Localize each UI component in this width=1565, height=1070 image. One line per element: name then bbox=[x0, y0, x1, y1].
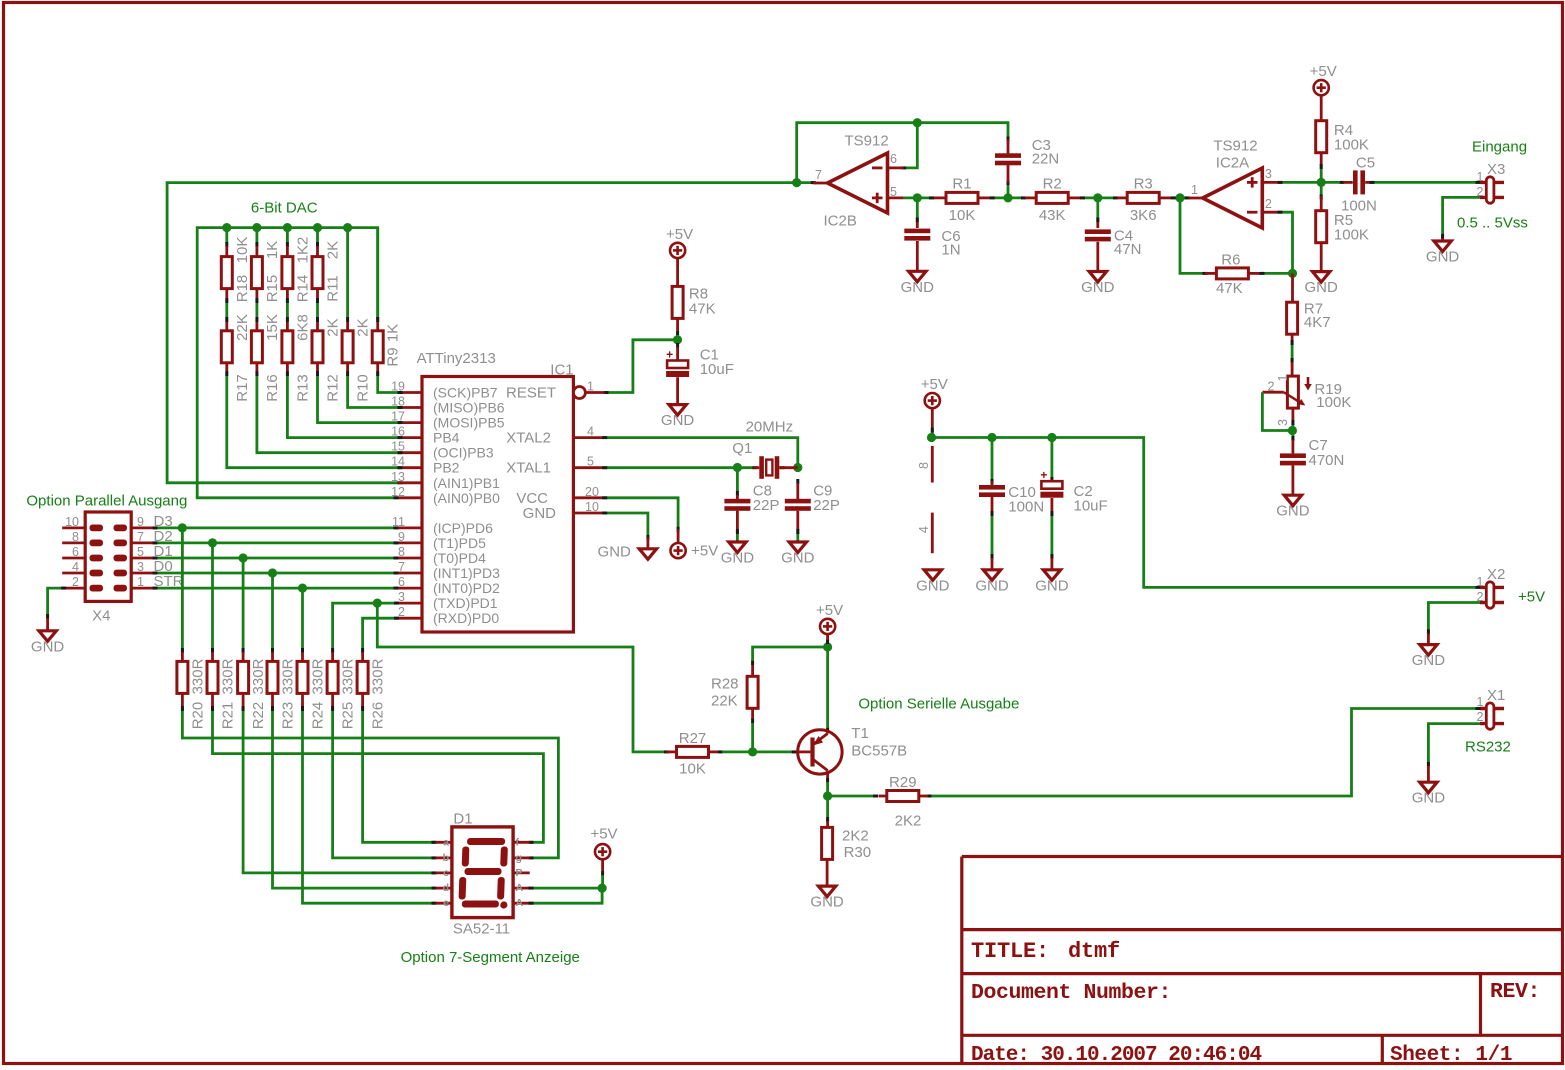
resistor R9 bbox=[372, 322, 402, 371]
svg-text:GND: GND bbox=[781, 550, 815, 567]
svg-text:10: 10 bbox=[65, 515, 79, 529]
svg-text:22K: 22K bbox=[711, 693, 738, 710]
IC IC1 ATTiny2313 bbox=[391, 350, 604, 632]
wire net R7 to R19 bbox=[1291, 340, 1294, 363]
svg-text:+5V: +5V bbox=[590, 826, 617, 843]
svg-text:+5V: +5V bbox=[921, 376, 948, 393]
svg-text:R16: R16 bbox=[264, 374, 281, 402]
svg-text:6: 6 bbox=[398, 575, 405, 589]
svg-text:GND: GND bbox=[1412, 790, 1446, 807]
svg-text:Option Parallel Ausgang: Option Parallel Ausgang bbox=[26, 493, 187, 510]
svg-text:100N: 100N bbox=[1008, 499, 1044, 516]
resistor R7 bbox=[1287, 273, 1331, 341]
svg-text:330R: 330R bbox=[189, 658, 206, 694]
svg-text:3K6: 3K6 bbox=[1130, 207, 1157, 224]
net label 0.5 .. 5Vss bbox=[1457, 215, 1528, 232]
wire net R10 to IC1 bbox=[346, 371, 402, 409]
connector X3 bbox=[1477, 161, 1506, 203]
transistor T1 (BC557B) bbox=[796, 725, 907, 779]
svg-text:1N: 1N bbox=[941, 242, 960, 259]
svg-text:(T1)PD5: (T1)PD5 bbox=[433, 535, 486, 551]
wire net C8 to ground bbox=[736, 529, 739, 540]
svg-text:R30: R30 bbox=[844, 844, 872, 861]
svg-text:1: 1 bbox=[137, 575, 144, 589]
svg-text:100N: 100N bbox=[1341, 198, 1377, 215]
svg-text:330R: 330R bbox=[310, 658, 327, 694]
svg-text:2K2: 2K2 bbox=[842, 827, 869, 844]
svg-text:1: 1 bbox=[1477, 170, 1484, 184]
svg-text:f: f bbox=[516, 836, 520, 848]
wire net IC2B output/feedback to PB1, rail to C3 and pin6 bbox=[167, 118, 1009, 484]
svg-text:47K: 47K bbox=[689, 300, 716, 317]
svg-text:22N: 22N bbox=[1032, 151, 1060, 168]
date text bbox=[971, 1044, 1261, 1067]
svg-text:(SCK)PB7: (SCK)PB7 bbox=[433, 385, 498, 401]
svg-text:100K: 100K bbox=[1334, 137, 1369, 154]
svg-text:(MOSI)PB5: (MOSI)PB5 bbox=[433, 415, 505, 431]
wire net PD row to R21 bbox=[211, 543, 214, 653]
svg-text:8: 8 bbox=[917, 462, 931, 469]
svg-text:X1: X1 bbox=[1487, 687, 1505, 704]
svg-text:6K8: 6K8 bbox=[294, 314, 311, 341]
svg-text:330R: 330R bbox=[220, 658, 237, 694]
document number text bbox=[971, 981, 1171, 1005]
wire net C9 to ground bbox=[796, 529, 799, 540]
svg-text:IC2B: IC2B bbox=[824, 213, 857, 230]
connector X2 bbox=[1477, 566, 1506, 608]
svg-text:R21: R21 bbox=[220, 702, 237, 730]
svg-text:D1: D1 bbox=[453, 811, 472, 828]
svg-text:2K2: 2K2 bbox=[895, 813, 922, 830]
ground (X1) bbox=[1412, 766, 1446, 807]
wire net R15 to R16 bbox=[255, 298, 258, 322]
wire net R14 to R13 bbox=[286, 298, 289, 322]
svg-text:9: 9 bbox=[137, 515, 144, 529]
resistor R26 bbox=[357, 652, 387, 729]
wire net R23 to segment d bbox=[271, 706, 437, 890]
wire net PD row to R23 bbox=[271, 573, 274, 653]
svg-text:R12: R12 bbox=[325, 374, 342, 402]
ground (R30) bbox=[810, 886, 844, 911]
svg-text:(AIN0)PB0: (AIN0)PB0 bbox=[433, 490, 500, 506]
svg-text:R11: R11 bbox=[325, 275, 342, 301]
net label Option 7-Segment Anzeige bbox=[401, 949, 580, 966]
svg-text:1: 1 bbox=[1191, 183, 1198, 197]
svg-text:1K2: 1K2 bbox=[294, 237, 311, 264]
wire net C10 to ground bbox=[991, 511, 994, 559]
+5V supply (IC1) bbox=[671, 529, 719, 559]
resistor R18 bbox=[221, 237, 251, 303]
svg-text:3: 3 bbox=[1265, 167, 1272, 181]
svg-text:IC2A: IC2A bbox=[1216, 155, 1249, 172]
capacitor C6 bbox=[904, 222, 960, 271]
resistor R11 bbox=[312, 241, 342, 302]
svg-text:R18: R18 bbox=[234, 275, 251, 303]
svg-text:(INT1)PD3: (INT1)PD3 bbox=[433, 565, 500, 581]
svg-text:R17: R17 bbox=[234, 374, 251, 402]
ground (X2) bbox=[1412, 633, 1446, 669]
+5V supply (IC2 rail) bbox=[921, 376, 948, 429]
wire net R11 to R12 bbox=[316, 298, 319, 322]
svg-text:R24: R24 bbox=[310, 702, 327, 730]
svg-text:4: 4 bbox=[72, 560, 79, 574]
svg-text:GND: GND bbox=[1081, 279, 1115, 296]
resistor R24 bbox=[297, 652, 327, 729]
svg-text:GND: GND bbox=[721, 550, 755, 567]
svg-text:X2: X2 bbox=[1487, 566, 1505, 583]
svg-text:XTAL1: XTAL1 bbox=[506, 460, 551, 477]
svg-text:8: 8 bbox=[72, 530, 79, 544]
svg-text:+5V: +5V bbox=[1310, 63, 1337, 80]
svg-text:RESET: RESET bbox=[506, 385, 556, 402]
svg-text:P: P bbox=[516, 867, 523, 879]
IC power pins 8/4 (IC2) bbox=[917, 446, 932, 553]
svg-text:+5V: +5V bbox=[816, 602, 843, 619]
resistor R2 bbox=[1025, 176, 1080, 224]
svg-text:22P: 22P bbox=[753, 497, 780, 514]
wire net R26 to segment a bbox=[361, 706, 436, 844]
resistor R13 bbox=[282, 314, 312, 402]
wire net R27/R28/T1 base node bbox=[722, 718, 797, 757]
svg-text:47N: 47N bbox=[1114, 241, 1142, 258]
wire net X4 pin2 to ground bbox=[46, 587, 66, 619]
svg-text:2K: 2K bbox=[355, 318, 372, 336]
svg-text:GND: GND bbox=[901, 279, 935, 296]
svg-text:R23: R23 bbox=[280, 702, 297, 730]
svg-text:(RXD)PD0: (RXD)PD0 bbox=[433, 610, 499, 626]
wire net T1 collector / R29 / R30 node bbox=[823, 778, 878, 822]
resistor R27 bbox=[667, 730, 724, 777]
svg-text:PB2: PB2 bbox=[433, 460, 460, 476]
capacitor C8 bbox=[724, 468, 779, 531]
ground (C6) bbox=[901, 271, 935, 296]
svg-text:8: 8 bbox=[398, 545, 405, 559]
net label Option Serielle Ausgabe bbox=[858, 696, 1019, 713]
ground (R5) bbox=[1305, 272, 1339, 297]
svg-text:R2: R2 bbox=[1043, 176, 1062, 193]
resistor R17 bbox=[221, 314, 251, 402]
svg-text:GND: GND bbox=[598, 543, 632, 560]
wire net R20 to segment g bbox=[181, 706, 559, 859]
wire net R22 to segment c bbox=[242, 706, 437, 874]
svg-text:1: 1 bbox=[587, 380, 594, 394]
svg-text:TS912: TS912 bbox=[1213, 138, 1257, 155]
+5V supply (T1) bbox=[816, 602, 843, 640]
wire net XTAL1 to crystal left node bbox=[602, 463, 802, 472]
resistor R28 bbox=[711, 660, 758, 719]
ground (C2) bbox=[1035, 558, 1069, 594]
wire net X1 pin2 to ground bbox=[1427, 724, 1480, 767]
connector X1 bbox=[1477, 687, 1506, 729]
wire net C5 to X3 pin1 bbox=[1370, 181, 1481, 184]
svg-text:IC1: IC1 bbox=[550, 362, 573, 379]
wire net input node (R4/R5/C5) bbox=[1320, 164, 1344, 200]
svg-text:R25: R25 bbox=[340, 702, 357, 730]
resistor R15 bbox=[251, 241, 281, 302]
svg-text:10K: 10K bbox=[679, 760, 706, 777]
svg-text:+5V: +5V bbox=[666, 226, 693, 243]
svg-text:XTAL2: XTAL2 bbox=[506, 430, 551, 447]
wire net pin5 node to R1 and C6 bbox=[904, 193, 934, 222]
svg-text:R28: R28 bbox=[711, 676, 739, 693]
svg-text:(OCI)PB3: (OCI)PB3 bbox=[433, 445, 494, 461]
capacitor C2 (polarized) bbox=[1040, 468, 1107, 514]
net label 6-Bit DAC bbox=[251, 200, 318, 217]
svg-text:6: 6 bbox=[72, 545, 79, 559]
wire net PD row to R20 bbox=[181, 528, 184, 653]
svg-text:(TXD)PD1: (TXD)PD1 bbox=[433, 595, 498, 611]
svg-text:C5: C5 bbox=[1356, 154, 1375, 171]
net label Option Parallel Ausgang bbox=[26, 493, 187, 510]
svg-text:GND: GND bbox=[1276, 503, 1310, 520]
wire net PD row to R24 bbox=[301, 588, 304, 653]
+5V supply (R4) bbox=[1310, 63, 1337, 121]
wire net R2-R3-C4 node bbox=[1080, 193, 1118, 222]
svg-text:5: 5 bbox=[587, 455, 594, 469]
svg-text:Option 7-Segment Anzeige: Option 7-Segment Anzeige bbox=[401, 949, 580, 966]
svg-text:20MHz: 20MHz bbox=[746, 419, 794, 436]
resistor R12 bbox=[312, 318, 342, 401]
svg-text:GND: GND bbox=[1412, 652, 1446, 669]
svg-text:R29: R29 bbox=[889, 774, 917, 791]
resistor R3 bbox=[1117, 176, 1171, 224]
svg-text:Date: 30.10.2007 20:46:04: Date: 30.10.2007 20:46:04 bbox=[971, 1044, 1261, 1067]
svg-text:7: 7 bbox=[137, 530, 144, 544]
svg-text:(AIN1)PB1: (AIN1)PB1 bbox=[433, 475, 500, 491]
ground (C1) bbox=[661, 405, 695, 430]
svg-text:R22: R22 bbox=[250, 702, 267, 730]
capacitor C9 bbox=[785, 479, 840, 530]
svg-text:g: g bbox=[516, 852, 522, 864]
svg-text:1K: 1K bbox=[385, 324, 402, 342]
svg-text:GND: GND bbox=[810, 894, 844, 911]
svg-text:R1: R1 bbox=[952, 176, 971, 193]
sheet text bbox=[1390, 1044, 1512, 1067]
svg-text:T1: T1 bbox=[851, 725, 869, 742]
ground (IC2 pin4) bbox=[916, 570, 950, 595]
svg-text:A: A bbox=[516, 882, 524, 894]
svg-text:STR: STR bbox=[154, 573, 184, 590]
wire net XTAL2 to crystal right node bbox=[602, 419, 798, 468]
svg-text:GND: GND bbox=[523, 505, 557, 522]
capacitor C1 (polarized) bbox=[666, 347, 734, 405]
svg-text:Sheet: 1/1: Sheet: 1/1 bbox=[1390, 1044, 1512, 1067]
svg-text:1K: 1K bbox=[264, 241, 281, 259]
wire net rail to R15 bbox=[255, 228, 258, 247]
svg-text:2: 2 bbox=[1265, 197, 1272, 211]
svg-text:R14: R14 bbox=[294, 275, 311, 303]
svg-text:9: 9 bbox=[398, 530, 405, 544]
svg-text:6-Bit DAC: 6-Bit DAC bbox=[251, 200, 318, 217]
svg-text:13: 13 bbox=[391, 470, 405, 484]
svg-text:TITLE:: TITLE: bbox=[971, 939, 1049, 964]
svg-text:RS232: RS232 bbox=[1465, 739, 1511, 756]
svg-text:330R: 330R bbox=[370, 658, 387, 694]
svg-text:3: 3 bbox=[137, 560, 144, 574]
svg-text:X3: X3 bbox=[1487, 161, 1505, 178]
wire net +5V rail (T1) bbox=[753, 639, 833, 733]
svg-text:GND: GND bbox=[31, 638, 65, 655]
wire net R16 to IC1 bbox=[255, 371, 402, 454]
svg-text:6: 6 bbox=[890, 152, 897, 166]
resistor R10 bbox=[342, 318, 372, 401]
svg-text:10: 10 bbox=[585, 500, 599, 514]
wire net VCC pin20 to +5V bbox=[602, 496, 679, 532]
svg-text:43K: 43K bbox=[1039, 207, 1066, 224]
svg-text:R20: R20 bbox=[189, 702, 206, 730]
wire net X4 rows to IC1 PD pins (D3,D2,D1,D0,STR) bbox=[153, 513, 399, 593]
capacitor C3 bbox=[995, 137, 1059, 182]
svg-text:3: 3 bbox=[1276, 419, 1290, 426]
svg-text:TS912: TS912 bbox=[845, 133, 889, 150]
wire net R21 to segment f bbox=[211, 706, 543, 844]
wire net R18 to R17 bbox=[225, 298, 228, 322]
svg-text:3: 3 bbox=[398, 590, 405, 604]
wire net R25 to segment b bbox=[331, 706, 436, 859]
svg-text:10K: 10K bbox=[234, 237, 251, 264]
ground (C10) bbox=[975, 558, 1009, 594]
capacitor C10 bbox=[979, 482, 1044, 516]
svg-text:PB4: PB4 bbox=[433, 430, 460, 446]
wire net IC2A pin2 to R6 right node bbox=[1264, 211, 1297, 278]
ground (X4) bbox=[31, 618, 65, 655]
svg-text:22K: 22K bbox=[234, 314, 251, 341]
svg-text:SA52-11: SA52-11 bbox=[453, 920, 510, 937]
svg-text:GND: GND bbox=[975, 577, 1009, 594]
svg-text:330R: 330R bbox=[250, 658, 267, 694]
svg-text:15K: 15K bbox=[264, 314, 281, 341]
svg-text:GND: GND bbox=[1426, 249, 1460, 266]
svg-text:4K7: 4K7 bbox=[1304, 314, 1331, 331]
display D1 (SA52-11 7-segment) bbox=[436, 811, 530, 938]
resistor R23 bbox=[267, 652, 297, 729]
op-amp IC2B (TS912) bbox=[813, 133, 903, 230]
svg-text:R15: R15 bbox=[264, 275, 281, 303]
wire net D1 anode to +5V bbox=[529, 871, 607, 905]
wire net rail to R18 bbox=[225, 228, 228, 247]
wire net IC2A pin3 to R4/R5/C5 node bbox=[1278, 178, 1326, 187]
ground (C8) bbox=[721, 540, 755, 567]
op-amp IC2A (TS912) bbox=[1188, 138, 1278, 229]
capacitor C7 bbox=[1280, 437, 1344, 495]
wire net X1 pin1 to R29 bbox=[927, 707, 1481, 798]
svg-text:(T0)PD4: (T0)PD4 bbox=[433, 550, 486, 566]
wire net R3 to IC2A output node, feedback to R6 bbox=[1171, 193, 1208, 275]
wire net rail to R14 bbox=[286, 228, 289, 247]
wire net X3 pin2 to ground bbox=[1441, 197, 1480, 239]
svg-text:1: 1 bbox=[1477, 695, 1484, 709]
svg-text:e: e bbox=[443, 897, 449, 909]
wire net R24 to segment e bbox=[301, 706, 437, 905]
svg-text:Q1: Q1 bbox=[732, 440, 752, 457]
svg-text:100K: 100K bbox=[1316, 394, 1351, 411]
wire net DAC summing rail bbox=[197, 223, 398, 499]
resistor R14 bbox=[282, 237, 312, 303]
svg-text:470N: 470N bbox=[1309, 452, 1345, 469]
svg-text:GND: GND bbox=[661, 412, 695, 429]
svg-text:GND: GND bbox=[916, 577, 950, 594]
wire net rail to R11 bbox=[316, 228, 319, 247]
svg-text:A: A bbox=[516, 897, 524, 909]
resistor R20 bbox=[177, 652, 207, 729]
svg-text:1: 1 bbox=[1276, 374, 1290, 381]
resistor R5 bbox=[1316, 196, 1369, 272]
ground (C9) bbox=[781, 540, 815, 567]
svg-text:10K: 10K bbox=[949, 207, 976, 224]
svg-text:330R: 330R bbox=[280, 658, 297, 694]
svg-text:b: b bbox=[443, 852, 449, 864]
net label Eingang bbox=[1472, 139, 1527, 156]
svg-text:R9: R9 bbox=[385, 347, 402, 366]
svg-text:(INT0)PD2: (INT0)PD2 bbox=[433, 580, 500, 596]
wire net rail to R9 bbox=[376, 228, 379, 322]
resistor R22 bbox=[238, 652, 268, 729]
svg-text:2: 2 bbox=[398, 605, 405, 619]
svg-text:5: 5 bbox=[137, 545, 144, 559]
svg-text:+5V: +5V bbox=[1518, 589, 1545, 606]
wire net R13 to IC1 bbox=[286, 371, 403, 439]
svg-text:R6: R6 bbox=[1221, 252, 1240, 269]
resistor R4 bbox=[1316, 121, 1369, 166]
svg-text:2: 2 bbox=[1477, 710, 1484, 724]
svg-text:c: c bbox=[443, 867, 449, 879]
resistor R25 bbox=[327, 652, 357, 729]
svg-text:X4: X4 bbox=[92, 608, 110, 625]
wire net +5V rail (pin8, C10, C2, X2) bbox=[927, 428, 1481, 589]
wire net R12 to IC1 bbox=[316, 371, 403, 424]
svg-text:+5V: +5V bbox=[691, 543, 718, 560]
wire net R1-R2-C3 node bbox=[990, 180, 1026, 202]
resistor R21 bbox=[207, 652, 237, 729]
wire net PD row to R25 bbox=[331, 599, 399, 654]
svg-text:0.5 .. 5Vss: 0.5 .. 5Vss bbox=[1457, 215, 1528, 232]
svg-text:4: 4 bbox=[917, 526, 931, 533]
svg-text:22P: 22P bbox=[813, 497, 840, 514]
svg-text:dtmf: dtmf bbox=[1068, 939, 1120, 964]
svg-text:R26: R26 bbox=[370, 702, 387, 730]
wire net RESET (R8/C1/pin1) bbox=[604, 331, 683, 394]
resistor R29 bbox=[879, 774, 929, 830]
wire net R9 to IC1 bbox=[376, 371, 402, 394]
wire net GND pin10 bbox=[602, 512, 649, 541]
resistor R1 bbox=[934, 176, 990, 224]
svg-text:(ICP)PD6: (ICP)PD6 bbox=[433, 520, 493, 536]
resistor R16 bbox=[251, 314, 281, 402]
svg-text:10uF: 10uF bbox=[700, 361, 734, 378]
svg-text:REV:: REV: bbox=[1490, 980, 1540, 1004]
svg-text:47K: 47K bbox=[1216, 280, 1243, 297]
ground (C4) bbox=[1081, 272, 1115, 297]
svg-text:10uF: 10uF bbox=[1074, 498, 1108, 515]
ground (X3) bbox=[1426, 238, 1460, 266]
wire net R19 pins 2+3 junction bbox=[1262, 392, 1297, 441]
net label RS232 bbox=[1465, 739, 1511, 756]
svg-text:BC557B: BC557B bbox=[851, 742, 907, 759]
title text bbox=[971, 939, 1120, 964]
svg-text:R13: R13 bbox=[294, 374, 311, 402]
title block frame bbox=[962, 857, 1561, 1064]
resistor R8 bbox=[672, 286, 716, 332]
svg-text:R3: R3 bbox=[1134, 176, 1153, 193]
crystal Q1 bbox=[732, 440, 798, 479]
ground (IC1) bbox=[598, 538, 657, 561]
svg-text:100K: 100K bbox=[1334, 227, 1369, 244]
svg-text:7: 7 bbox=[398, 560, 405, 574]
potentiometer R19 bbox=[1262, 362, 1351, 426]
svg-text:7: 7 bbox=[815, 168, 822, 182]
rev text bbox=[1490, 980, 1540, 1004]
wire net C2 to ground bbox=[1050, 511, 1053, 559]
